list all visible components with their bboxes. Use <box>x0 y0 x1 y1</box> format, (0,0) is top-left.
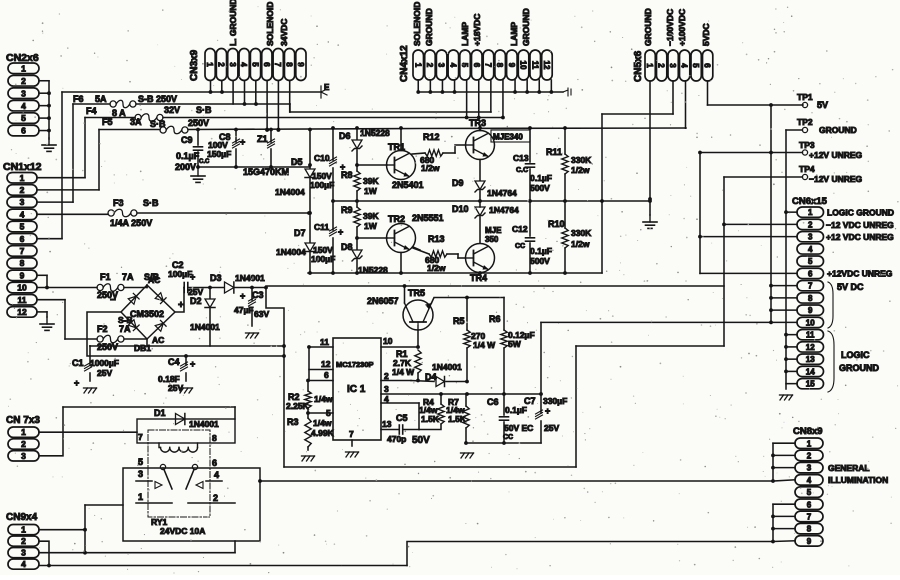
resistor R11 <box>562 126 568 201</box>
svg-text:5VDC: 5VDC <box>701 23 711 46</box>
svg-text:S·B: S·B <box>196 105 212 115</box>
resistor R9 label <box>341 205 379 231</box>
capacitor C7 label <box>524 396 567 433</box>
wire CN6 pins 11-15 <box>786 335 797 384</box>
IC1 pin 5 <box>306 408 333 418</box>
svg-text:+12V UNREG: +12V UNREG <box>809 150 863 160</box>
capacitor C11 <box>330 201 337 275</box>
fuse F1 labels <box>97 272 160 300</box>
svg-text:1/4 W: 1/4 W <box>473 340 496 350</box>
wire TR5 emitter down <box>416 330 420 349</box>
wire bridge bottom corner <box>90 339 147 346</box>
svg-text:4: 4 <box>807 476 812 485</box>
svg-text:32V: 32V <box>164 105 180 115</box>
ground R3 <box>302 456 315 461</box>
resistor R7 label <box>446 397 467 424</box>
wire CN4 pin7 down <box>490 80 492 112</box>
svg-text:6: 6 <box>324 370 329 380</box>
label CN3 L.GROUND <box>228 0 238 46</box>
transistor TR5 label <box>367 288 425 306</box>
svg-text:D10: D10 <box>452 204 469 214</box>
connector CN6x15 <box>797 207 824 389</box>
svg-text:15G470KM: 15G470KM <box>243 167 289 177</box>
label CN4 LAMP 2 <box>509 22 519 46</box>
svg-text:25V: 25V <box>544 423 559 433</box>
label CN5 5VDC <box>701 23 711 46</box>
wire CN3 pin6 down <box>265 81 269 132</box>
svg-text:TP3: TP3 <box>799 140 815 150</box>
svg-text:9: 9 <box>507 63 516 68</box>
resistor R6 <box>501 298 507 395</box>
zener D9 label <box>452 178 517 198</box>
ground C9 <box>191 169 205 182</box>
svg-text:CM3502: CM3502 <box>130 309 164 319</box>
capacitor C10 labels <box>310 153 345 190</box>
resistor R8 <box>354 165 360 201</box>
relay pin 4 <box>214 470 219 480</box>
wire minus rail <box>87 312 284 358</box>
svg-text:S-B 250V: S-B 250V <box>138 94 177 104</box>
wire CN6 pin9 <box>771 309 797 311</box>
wire CN9 pin3 <box>39 541 235 555</box>
wire TR5 emitter right <box>432 296 505 303</box>
resistor R12 label <box>420 132 440 173</box>
svg-text:47µF: 47µF <box>234 305 254 315</box>
zener D8 <box>352 236 362 273</box>
svg-text:D5: D5 <box>291 157 303 167</box>
svg-text:500V: 500V <box>530 183 550 193</box>
svg-text:3: 3 <box>228 62 237 67</box>
capacitor C6 <box>500 394 509 445</box>
svg-text:2N5401: 2N5401 <box>392 180 424 190</box>
svg-text:5: 5 <box>20 222 25 232</box>
wire CN6 pin3 <box>700 236 797 238</box>
svg-text:10: 10 <box>806 318 815 327</box>
capacitor C9 <box>194 130 203 168</box>
svg-text:+: + <box>190 272 195 282</box>
label DB1 <box>134 343 151 353</box>
zener D8 label <box>341 242 388 275</box>
wire F4 output 32V rail <box>163 116 503 120</box>
resistor R5 <box>464 298 470 382</box>
wire CN8 bus upper <box>771 443 795 481</box>
IC1 pin 7 <box>349 429 354 446</box>
brace CN6 5V <box>828 282 833 328</box>
zener D9 <box>475 181 485 201</box>
svg-text:15: 15 <box>806 380 815 389</box>
fuse F4 <box>135 114 163 122</box>
wire F6 left <box>73 103 110 105</box>
wire TR3 emitter to D9 <box>479 160 481 181</box>
svg-text:10: 10 <box>17 283 27 293</box>
svg-text:100µF: 100µF <box>310 180 334 190</box>
svg-text:330µF: 330µF <box>543 396 567 406</box>
svg-text:+100VDC: +100VDC <box>677 9 687 46</box>
connector CN2x6 <box>8 63 39 136</box>
wire CN1 pin1 to F4 <box>37 118 85 178</box>
ground regulator <box>461 453 474 458</box>
svg-text:200V: 200V <box>175 162 196 172</box>
svg-text:100µF: 100µF <box>311 254 335 264</box>
svg-text:+: + <box>338 227 343 237</box>
diode D5 label <box>275 157 305 197</box>
wire F3 output <box>137 211 311 215</box>
wire CN3 pin7 down <box>277 81 281 132</box>
capacitor C13 <box>526 126 535 201</box>
svg-text:34VDC: 34VDC <box>279 19 289 46</box>
label CN4 +18VDC <box>472 14 482 46</box>
capacitor C5 label <box>387 413 430 446</box>
test point TP4 <box>724 164 863 184</box>
wire CN5 pin4 +100VDC <box>685 81 687 128</box>
svg-text:−100VDC: −100VDC <box>665 9 675 46</box>
IC1 pin 3 <box>381 384 543 396</box>
svg-text:2: 2 <box>21 76 26 86</box>
svg-text:6: 6 <box>472 63 481 68</box>
svg-text:5: 5 <box>691 63 700 68</box>
capacitor C8 labels <box>207 132 245 159</box>
relay contact circles <box>160 464 197 469</box>
svg-text:5: 5 <box>21 113 26 123</box>
svg-text:LAMP: LAMP <box>509 22 519 46</box>
connector CN2x6 label <box>6 52 39 64</box>
svg-text:LAMP: LAMP <box>460 22 470 46</box>
svg-text:11: 11 <box>530 61 539 70</box>
wire TR1 base <box>355 163 387 167</box>
svg-text:4: 4 <box>448 63 457 68</box>
svg-text:MJE340: MJE340 <box>493 133 523 142</box>
svg-text:250V: 250V <box>188 118 209 128</box>
ground CN5 pin1 <box>643 215 657 228</box>
svg-text:5W: 5W <box>508 339 522 349</box>
svg-text:R6: R6 <box>489 314 501 324</box>
resistor R5 label <box>453 316 496 350</box>
svg-text:8: 8 <box>807 525 812 534</box>
wire CN1 pin6 to 250V bus <box>37 92 62 239</box>
connector CN4x12 label <box>399 45 410 82</box>
svg-text:4: 4 <box>680 63 689 68</box>
svg-text:5: 5 <box>138 457 143 467</box>
wire CN3 pin5 down <box>255 81 257 105</box>
svg-text:TP4: TP4 <box>799 164 815 174</box>
svg-text:F1: F1 <box>100 272 111 282</box>
svg-text:11: 11 <box>18 295 27 305</box>
wire CN9 pin4 <box>39 565 407 567</box>
svg-text:TR4: TR4 <box>470 273 487 283</box>
svg-text:C7: C7 <box>524 396 536 406</box>
zener D6 label <box>339 128 390 141</box>
svg-text:8 A: 8 A <box>112 108 126 118</box>
capacitor C5 <box>381 403 419 434</box>
wire CN6 pin6 <box>700 272 797 274</box>
terminal mark CN4 bus <box>563 88 571 96</box>
svg-text:GROUND: GROUND <box>521 8 531 46</box>
svg-text:+: + <box>74 378 79 388</box>
wire F5 left <box>99 129 160 131</box>
svg-text:7: 7 <box>349 429 354 439</box>
wire plus rail lower <box>90 345 284 347</box>
svg-text:CN3x9: CN3x9 <box>189 49 200 81</box>
relay RY1 label <box>151 517 205 536</box>
wire TR2 collector down <box>400 253 402 274</box>
wire CN7 pin1 <box>39 431 137 433</box>
relay pin 2 <box>213 493 218 503</box>
svg-text:GROUND: GROUND <box>839 363 879 373</box>
capacitor C4 labels <box>158 357 195 393</box>
svg-text:3: 3 <box>21 548 26 558</box>
wire C2 to D3 <box>188 286 224 290</box>
fuse F5 <box>160 126 188 134</box>
svg-text:1/4w: 1/4w <box>314 394 333 404</box>
capacitor C13 label <box>513 153 552 193</box>
svg-text:0.1µF: 0.1µF <box>530 173 552 183</box>
transistor TR3 <box>466 131 495 160</box>
svg-text:2: 2 <box>21 439 26 449</box>
svg-text:4: 4 <box>21 101 26 111</box>
IC1 pin 12 <box>309 347 333 381</box>
label CN4 GROUND 2 <box>521 8 531 46</box>
svg-text:CN4x12: CN4x12 <box>399 45 410 82</box>
wire CN4 pin6 down <box>478 80 480 118</box>
svg-text:3: 3 <box>437 63 446 68</box>
resistor R2 <box>305 381 311 414</box>
label bridge minus <box>110 295 116 306</box>
svg-text:CN1x12: CN1x12 <box>3 161 42 173</box>
svg-text:+: + <box>240 137 245 147</box>
svg-text:1: 1 <box>413 63 422 68</box>
svg-text:IC 1: IC 1 <box>347 384 366 395</box>
diode D3 <box>225 282 234 293</box>
capacitor C3 <box>249 288 256 327</box>
svg-text:D3: D3 <box>210 273 222 283</box>
wire CN3 pin2 down <box>221 81 223 93</box>
svg-text:5: 5 <box>251 62 260 67</box>
svg-text:0.1µF: 0.1µF <box>530 246 552 256</box>
connector CN4x12 <box>413 50 552 80</box>
svg-text:C12: C12 <box>512 224 528 234</box>
svg-text:5V DC: 5V DC <box>837 282 864 292</box>
svg-text:2.25K: 2.25K <box>286 401 310 411</box>
transistor TR2 label <box>388 213 444 224</box>
transistor TR4 <box>466 244 495 273</box>
resistor R7 <box>463 394 469 445</box>
diode D7 label <box>276 228 306 257</box>
label CN6 pin2 <box>826 220 894 230</box>
wire CN1 pin11 to F2 <box>37 300 97 339</box>
ground C1 <box>84 388 97 393</box>
wire C8-Z1 bottom <box>196 165 310 169</box>
svg-text:9: 9 <box>20 270 25 280</box>
svg-text:C1: C1 <box>72 358 84 368</box>
relay switch left <box>136 470 172 490</box>
svg-text:13: 13 <box>382 419 392 429</box>
svg-text:2N5551: 2N5551 <box>412 213 444 223</box>
wire CN7 pin3 <box>39 407 63 456</box>
IC1 pin 13 <box>382 419 392 429</box>
svg-text:F4: F4 <box>86 106 97 116</box>
relay bottom contacts <box>136 502 235 504</box>
svg-text:+: + <box>545 406 550 416</box>
svg-text:C10: C10 <box>314 153 330 163</box>
connector CN1x12 label <box>3 161 42 173</box>
svg-text:2: 2 <box>216 62 225 67</box>
svg-text:−: − <box>110 295 116 306</box>
resistor R1 <box>415 350 421 382</box>
svg-text:DB1: DB1 <box>134 343 151 353</box>
wire bottom rail <box>308 271 602 275</box>
svg-text:1: 1 <box>205 62 214 67</box>
fuse F6 <box>110 100 136 108</box>
connector CN1x12 <box>7 173 37 318</box>
ground CN2x6 <box>42 138 56 151</box>
svg-text:1N5228: 1N5228 <box>360 128 390 138</box>
svg-text:5: 5 <box>807 488 812 497</box>
svg-text:12: 12 <box>542 61 551 70</box>
label CN4 LAMP <box>460 22 470 46</box>
transistor TR5 <box>403 300 433 330</box>
svg-text:4: 4 <box>21 559 26 569</box>
relay outer box <box>123 468 260 541</box>
wire bridge to C2 <box>0 0 1 1</box>
resistor R10 <box>562 201 568 273</box>
svg-text:7: 7 <box>483 63 492 68</box>
wire CN6 pin8 <box>771 297 797 299</box>
svg-text:5: 5 <box>460 63 469 68</box>
wire F1 to bridge <box>124 285 147 288</box>
svg-text:LOGIC GROUND: LOGIC GROUND <box>827 208 894 218</box>
svg-text:Z1: Z1 <box>257 134 268 144</box>
svg-text:1: 1 <box>808 208 813 217</box>
label CN3 34VDC <box>279 19 289 46</box>
label CN6 pin6 <box>827 269 893 279</box>
svg-text:F2: F2 <box>97 324 108 334</box>
wire ground bus <box>784 130 788 389</box>
svg-text:7: 7 <box>807 513 812 522</box>
fuse F2 labels <box>97 315 133 352</box>
svg-text:2: 2 <box>807 452 812 461</box>
svg-text:ILLUMINATION: ILLUMINATION <box>828 475 888 485</box>
zener D10 <box>475 201 485 243</box>
diode D1 label <box>154 408 219 429</box>
transistor TR1 <box>387 151 416 180</box>
svg-text:C4: C4 <box>168 357 180 367</box>
wire bridge plus corner <box>175 288 184 313</box>
wire CN5 pin6 5VDC <box>708 81 804 107</box>
wire CN7 pin3 corner <box>234 407 236 419</box>
transistor TR2 <box>387 224 416 253</box>
wire TR4 emitter <box>479 272 481 275</box>
fuse F2 <box>97 335 124 343</box>
wire CN1 pin4 to F3 <box>37 213 108 215</box>
wire 5V bus <box>769 105 773 322</box>
wire TR3 collector <box>478 126 482 130</box>
svg-text:5A: 5A <box>95 94 107 104</box>
wire CN1 pin10 to F1 <box>37 287 97 289</box>
capacitor C2 <box>184 283 188 293</box>
svg-text:3: 3 <box>20 197 25 207</box>
zener Z1 <box>268 130 275 168</box>
svg-text:C.C: C.C <box>199 159 210 165</box>
relay pin 6 <box>212 458 217 468</box>
diode D2 <box>205 288 215 347</box>
svg-text:6: 6 <box>807 500 812 509</box>
wire CN5 pin3 to box <box>672 81 674 114</box>
capacitor C12 label <box>512 224 552 266</box>
wire CN6 pin1 <box>786 211 797 213</box>
svg-text:350: 350 <box>485 235 499 244</box>
capacitor C11 labels <box>311 222 343 264</box>
svg-text:S·B: S·B <box>143 198 159 208</box>
resistor R4 <box>419 395 444 430</box>
svg-text:TR5: TR5 <box>408 288 425 298</box>
svg-text:+12VDC UNREG: +12VDC UNREG <box>827 269 893 279</box>
svg-text:C13: C13 <box>513 153 529 163</box>
svg-text:GROUND: GROUND <box>424 8 434 46</box>
svg-text:1: 1 <box>645 63 654 68</box>
svg-text:1N4004: 1N4004 <box>275 187 305 197</box>
connector CN5x6 label <box>633 50 644 82</box>
svg-text:100µF: 100µF <box>168 269 192 279</box>
diode D4 <box>411 377 469 387</box>
relay pin 3 <box>138 469 143 479</box>
svg-text:7: 7 <box>273 62 282 67</box>
label AC bottom <box>152 335 164 345</box>
ground C3 <box>246 333 259 338</box>
resistor R3 <box>305 413 311 450</box>
connector CN7x3 <box>8 427 39 461</box>
wire CN1 pin12 to ground <box>37 312 47 317</box>
svg-text:R11: R11 <box>546 147 562 157</box>
svg-text:E: E <box>324 83 330 92</box>
svg-text:−12V UNREG: −12V UNREG <box>809 174 863 184</box>
capacitor C2 labels <box>168 260 203 297</box>
wire CN3 pin4 down <box>244 81 246 105</box>
label MJE350 <box>485 226 502 244</box>
svg-text:6: 6 <box>703 63 712 68</box>
test point TP1 <box>797 92 828 110</box>
svg-text:C11: C11 <box>314 222 329 232</box>
svg-text:R3: R3 <box>287 417 299 427</box>
label AC top <box>148 275 160 285</box>
svg-text:1N4764: 1N4764 <box>489 205 519 215</box>
svg-text:1N4004: 1N4004 <box>276 247 306 257</box>
zener D6 <box>352 126 362 165</box>
svg-text:+: + <box>190 359 195 369</box>
svg-text:24VDC 10A: 24VDC 10A <box>160 526 205 536</box>
svg-text:D2: D2 <box>190 296 202 306</box>
wire CN1 pin3 to F6 <box>37 104 73 202</box>
svg-text:AC: AC <box>148 275 160 285</box>
svg-text:R12: R12 <box>423 132 440 142</box>
wire CN1 pin9 <box>37 275 49 289</box>
connector CN9x4 label <box>6 512 38 523</box>
svg-text:6: 6 <box>212 458 217 468</box>
svg-text:0.1µF: 0.1µF <box>176 151 200 161</box>
wire D3 out <box>235 286 268 290</box>
wire CN9 pin1 <box>39 505 123 552</box>
label CN5 GROUND <box>643 8 653 46</box>
svg-text:6: 6 <box>808 269 813 278</box>
resistor R6 label <box>489 314 535 349</box>
fuse F5 labels <box>102 117 209 129</box>
label CN4 SOLENOID <box>412 2 422 46</box>
svg-text:LOGIC: LOGIC <box>841 350 870 360</box>
svg-text:2: 2 <box>384 371 389 381</box>
wire F4 left <box>85 117 135 119</box>
IC1 pin 6 <box>306 370 333 382</box>
svg-text:7: 7 <box>20 246 25 256</box>
svg-text:GENERAL: GENERAL <box>828 463 870 473</box>
